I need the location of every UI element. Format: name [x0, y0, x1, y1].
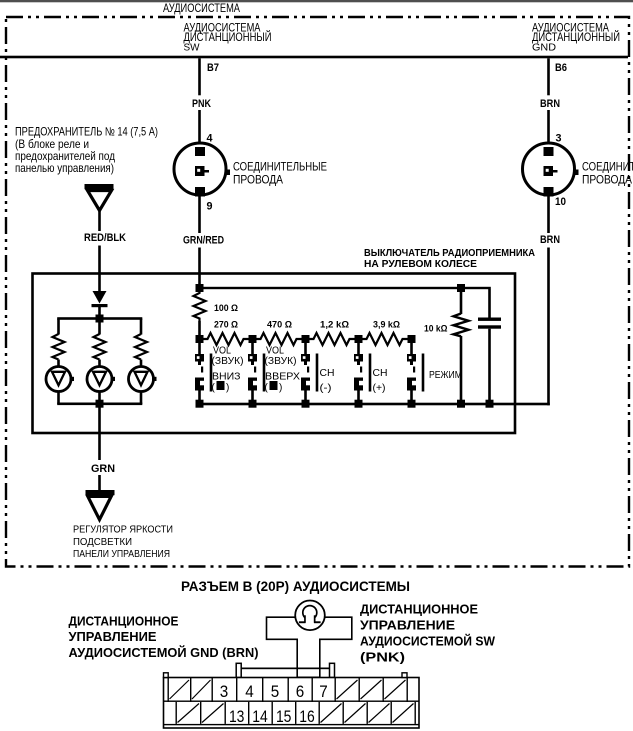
svg-text:3: 3 — [220, 682, 229, 701]
wire GRN/RED segment 1 — [198, 195, 201, 233]
switch S4 CH plus (pushbutton) — [354, 343, 371, 408]
svg-text:VOL: VOL — [213, 346, 231, 357]
svg-text:BRN: BRN — [540, 98, 560, 110]
illumination dimmer arrow (triangle) — [86, 490, 115, 495]
svg-text:ВВЕРХ: ВВЕРХ — [265, 372, 300, 383]
label СОЕДИНИТЕЛЬНЫЕ ПРОВОДА (left) — [233, 160, 327, 187]
label СОЕДИНИТЕЛЬНЫЕ ПРОВОДА (right, clipped) — [582, 160, 633, 187]
label ВЫКЛЮЧАТЕЛЬ РАДИОПРИЕМНИКА НА РУЛЕВОМ КОЛЕСЕ — [364, 247, 535, 270]
wire GRN/RED segment 2 into switch box — [198, 248, 201, 289]
hatch marks bottom row — [178, 704, 414, 723]
svg-text:15: 15 — [276, 707, 292, 726]
svg-text:3,9 kΩ: 3,9 kΩ — [373, 320, 400, 330]
connector index circle — [295, 601, 325, 631]
label CH (+) — [373, 368, 388, 394]
svg-text:16: 16 — [299, 707, 315, 726]
lamp L2 (illumination bulb) — [87, 367, 112, 392]
wire RED/BLK segment 1 — [98, 211, 101, 232]
svg-text:): ) — [226, 383, 229, 394]
resistor 1,2 kohm (horizontal) — [306, 333, 359, 345]
wire B6/BRN vertical segment 2 — [547, 110, 550, 144]
svg-text:АУДИОСИСТЕМА: АУДИОСИСТЕМА — [163, 1, 240, 15]
connector circle (joint connector) right — [523, 143, 575, 195]
connector circle (joint connector) left — [174, 143, 226, 195]
svg-text:CH: CH — [373, 368, 388, 379]
svg-text:панелью управления): панелью управления) — [15, 161, 114, 175]
wire BRN segment below connector — [547, 195, 550, 233]
right connector middle terminal — [544, 166, 554, 176]
junction dot capacitor bottom — [486, 400, 494, 408]
svg-text:SW: SW — [184, 42, 200, 54]
resistor 100 ohm (vertical) — [194, 289, 206, 321]
svg-text:RED/BLK: RED/BLK — [84, 232, 126, 244]
svg-text:ДИСТАНЦИОННОЕ: ДИСТАНЦИОННОЕ — [360, 603, 478, 617]
svg-text:B6: B6 — [555, 62, 567, 74]
steering wheel radio switch box — [33, 274, 516, 434]
switch S3 CH minus (pushbutton) — [301, 343, 318, 408]
label CH (-) — [320, 368, 335, 394]
top window edge bar — [0, 0, 633, 2]
wire: leads into lamps — [57, 360, 60, 368]
switch S1 VOL down (pushbutton) — [195, 343, 212, 408]
svg-text:СОЕДИНИТЕЛЬНЫЕ: СОЕДИНИТЕЛЬНЫЕ — [233, 160, 327, 174]
svg-text:СОЕДИНИТЕЛЬНЫЕ: СОЕДИНИТЕЛЬНЫЕ — [582, 160, 633, 174]
svg-text:4: 4 — [245, 682, 254, 701]
svg-text:470 Ω: 470 Ω — [267, 320, 292, 330]
svg-text:РЕГУЛЯТОР ЯРКОСТИ: РЕГУЛЯТОР ЯРКОСТИ — [73, 525, 173, 536]
label ДИСТАНЦИОННОЕ УПРАВЛЕНИЕ АУДИОСИСТЕМОЙ SW (PNK) — [360, 603, 495, 665]
label РЕГУЛЯТОР ЯРКОСТИ ПОДСВЕТКИ ПАНЕЛИ УПРАВЛЕНИЯ — [73, 525, 173, 561]
right connector right nub — [574, 170, 579, 176]
svg-text:(ЗВУК): (ЗВУК) — [265, 356, 297, 367]
svg-text:ВНИЗ: ВНИЗ — [212, 372, 241, 383]
wire GRN segment 1 (out of box) — [98, 405, 101, 460]
svg-text:ПАНЕЛИ УПРАВЛЕНИЯ: ПАНЕЛИ УПРАВЛЕНИЯ — [73, 549, 170, 560]
wire: lamp bottom leads — [57, 392, 60, 404]
right connector bottom terminal pad — [544, 187, 554, 197]
fuse annotation text — [15, 125, 158, 176]
wire: horizontal bus at top — [0, 56, 628, 59]
omega keyway glyph inside circle — [299, 606, 321, 624]
resistor (lamp 3 series) — [135, 334, 147, 360]
capacitor C top lead — [488, 289, 491, 318]
switch S2 VOL up (pushbutton) — [248, 343, 265, 408]
wire: lead from 100 ohm down to node B — [198, 321, 201, 337]
svg-text:РЕЖИМ: РЕЖИМ — [429, 370, 462, 381]
resistor 270 ohm (horizontal) — [200, 333, 253, 345]
svg-text:PNK: PNK — [192, 98, 211, 110]
svg-text:УПРАВЛЕНИЕ: УПРАВЛЕНИЕ — [360, 619, 455, 633]
body corner step left — [164, 673, 169, 678]
label VOL (ЗВУК) ВНИЗ + speaker icon — [212, 346, 244, 394]
svg-text:GRN: GRN — [91, 463, 115, 475]
wire: lamp branch leads top — [57, 319, 60, 335]
svg-text:7: 7 — [319, 682, 328, 701]
wire B6/BRN vertical segment 1 — [547, 58, 550, 95]
wire B7/PNK vertical segment 2 — [198, 110, 201, 144]
junction dot node D — [302, 335, 310, 343]
svg-text:100 Ω: 100 Ω — [214, 303, 238, 313]
label АУДИОСИСТЕМА ДИСТАНЦИОННЫЙ GND — [532, 21, 620, 54]
svg-text:BRN: BRN — [540, 234, 560, 246]
fuse feed arrow (triangle) — [85, 184, 114, 189]
svg-text:10: 10 — [555, 196, 566, 208]
svg-text:ДИСТАНЦИОННОЕ: ДИСТАНЦИОННОЕ — [69, 615, 179, 629]
svg-text:(+): (+) — [373, 383, 386, 394]
row separator lines — [164, 701, 420, 702]
svg-text:(: ( — [212, 383, 216, 394]
svg-text:B7: B7 — [207, 62, 219, 74]
wire GRN segment 2 — [98, 475, 101, 490]
svg-text:ПРОВОДА: ПРОВОДА — [582, 173, 632, 187]
svg-text:270 Ω: 270 Ω — [214, 320, 238, 330]
left connector middle terminal — [195, 166, 205, 176]
resistor 470 ohm (horizontal) — [253, 333, 306, 345]
diode D (illumination feed) — [92, 291, 108, 315]
capacitor C plates — [478, 318, 501, 321]
lamp L3 (illumination bulb) — [129, 367, 154, 392]
svg-text:5: 5 — [271, 682, 280, 701]
label ДИСТАНЦИОННОЕ УПРАВЛЕНИЕ АУДИОСИСТЕМОЙ GND (BRN) — [69, 615, 259, 661]
resistor 10 kohm zigzag — [454, 314, 469, 337]
svg-text:13: 13 — [229, 707, 245, 726]
junction dot on bottom rail — [96, 400, 104, 408]
junction dot node C — [249, 335, 257, 343]
svg-text:GND: GND — [532, 42, 556, 54]
junction dot node B — [196, 335, 204, 343]
svg-text:): ) — [279, 383, 282, 394]
svg-text:(PNK): (PNK) — [360, 651, 405, 665]
connector body outline — [164, 678, 420, 729]
label VOL (ЗВУК) ВВЕРХ + speaker icon — [265, 346, 301, 394]
retainer tab right — [330, 663, 335, 677]
wire: 10 kohm bottom lead — [460, 336, 463, 404]
bottom row cell dividers — [176, 702, 416, 724]
resistor (lamp 1 series) — [53, 334, 65, 360]
left connector right nub — [226, 170, 231, 176]
right connector top terminal pad — [544, 147, 554, 156]
left connector bottom terminal pad — [195, 187, 205, 197]
capacitor C bottom lead — [488, 329, 491, 404]
svg-text:(-): (-) — [320, 383, 332, 394]
junction dot node A (top of resistor network) — [196, 284, 204, 292]
resistor 3,9 kohm (horizontal) — [359, 333, 412, 345]
svg-text:9: 9 — [207, 201, 213, 213]
svg-text:АУДИОСИСТЕМОЙ GND (BRN): АУДИОСИСТЕМОЙ GND (BRN) — [69, 645, 259, 660]
svg-text:УПРАВЛЕНИЕ: УПРАВЛЕНИЕ — [69, 630, 157, 644]
resistor (lamp 2 series) — [94, 334, 106, 360]
svg-text:ПРОВОДА: ПРОВОДА — [233, 173, 283, 187]
top row cell dividers — [168, 678, 408, 702]
svg-text:6: 6 — [296, 682, 305, 701]
wire: rail A horizontal (to 10k and capacitor) — [198, 287, 491, 289]
junction dot rail A at 10k resistor — [457, 284, 465, 292]
switch S5 mode (pushbutton) — [407, 343, 424, 408]
junction dot node F (РЕЖИМ tap) — [408, 335, 416, 343]
connector key/tang outline (T shape) — [267, 617, 352, 677]
svg-text:ПОДСВЕТКИ: ПОДСВЕТКИ — [73, 537, 132, 548]
lamp L1 (illumination bulb) — [46, 367, 71, 392]
hatch marks top row — [170, 680, 406, 699]
wire BRN segment down to bottom rail — [547, 248, 550, 406]
junction dot below diode — [96, 315, 104, 323]
wire RED/BLK segment 2 into switch box — [98, 246, 101, 292]
label АУДИОСИСТЕМА ДИСТАНЦИОННЫЙ SW — [184, 21, 272, 54]
left connector top terminal pad — [195, 147, 205, 156]
body corner step right — [402, 673, 407, 678]
wire: illumination bottom rail — [57, 403, 142, 406]
retainer bar across connector top — [241, 668, 330, 670]
svg-text:10 kΩ: 10 kΩ — [424, 324, 448, 334]
svg-text:14: 14 — [252, 707, 268, 726]
resistor 10 kohm (vertical) leads — [460, 289, 463, 314]
junction dot node E — [355, 335, 363, 343]
svg-text:НА РУЛЕВОМ КОЛЕСЕ: НА РУЛЕВОМ КОЛЕСЕ — [364, 258, 477, 270]
svg-text:(ЗВУК): (ЗВУК) — [212, 356, 244, 367]
dash-dot system boundary box — [6, 17, 629, 567]
wire: bottom rail of switch network (extends to BRN wire) — [198, 403, 550, 406]
svg-text:РАЗЪЕМ В (20Р) АУДИОСИСТЕМЫ: РАЗЪЕМ В (20Р) АУДИОСИСТЕМЫ — [181, 579, 410, 594]
svg-text:VOL: VOL — [266, 346, 284, 357]
wire B7/PNK vertical segment 1 — [198, 58, 201, 95]
junction dot 10 kohm bottom — [457, 400, 465, 408]
wire: illumination top rail — [57, 317, 142, 320]
svg-text:(: ( — [265, 383, 269, 394]
svg-text:GRN/RED: GRN/RED — [183, 235, 224, 247]
svg-text:CH: CH — [320, 368, 335, 379]
retainer tab left — [236, 663, 241, 677]
svg-text:АУДИОСИСТЕМОЙ SW: АУДИОСИСТЕМОЙ SW — [360, 634, 495, 649]
svg-text:1,2 kΩ: 1,2 kΩ — [320, 320, 349, 330]
